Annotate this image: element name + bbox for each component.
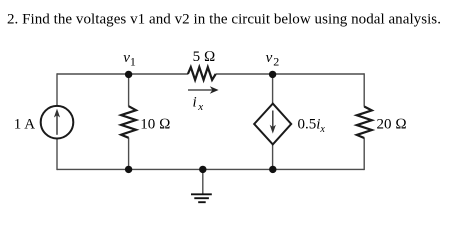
current arrow ix (points right, under 5-ohm resistor) xyxy=(188,86,219,93)
node v2 junction dot xyxy=(269,71,276,78)
node label v1 xyxy=(123,50,136,68)
svg-text:10 Ω: 10 Ω xyxy=(140,116,170,132)
ground symbol xyxy=(191,194,212,202)
svg-text:v: v xyxy=(266,50,273,66)
svg-text:x: x xyxy=(197,101,203,113)
junction dot: bottom rail below 10-ohm resistor xyxy=(125,166,132,173)
dependent current source 0.5ix (diamond) xyxy=(254,104,291,145)
resistor R 20 ohm xyxy=(357,107,372,139)
resistor R 5 ohm xyxy=(188,67,216,80)
wire: top segment from top-left corner to 5-ohm resistor (through node v1) xyxy=(57,73,188,75)
wire: top segment from 5-ohm resistor to top-right corner (through node v2) xyxy=(216,73,365,75)
wire: bottom rail from bottom-left to bottom-right corner xyxy=(57,168,364,170)
wire: node v2 down to dependent source xyxy=(272,74,274,104)
junction dot: bottom rail below dependent source xyxy=(269,166,276,173)
wire: right lower (20-ohm resistor down to bottom-right corner) xyxy=(363,138,365,170)
svg-text:1 A: 1 A xyxy=(14,116,35,132)
svg-text:0.5ix: 0.5ix xyxy=(298,116,326,135)
wire: ground stub xyxy=(202,169,204,193)
wire: left lower (current source down to bottom-left corner) xyxy=(56,139,58,170)
junction dot: bottom rail at ground stub xyxy=(199,166,206,173)
svg-text:2: 2 xyxy=(273,54,279,68)
svg-text:1: 1 xyxy=(130,54,136,68)
svg-text:i: i xyxy=(193,95,197,111)
wire: left upper (top-left corner down to current source) xyxy=(56,73,58,106)
current source I1 (1 A, independent) xyxy=(41,106,74,139)
wire: right upper (top-right corner down to 20-ohm resistor) xyxy=(363,73,365,106)
svg-text:20 Ω: 20 Ω xyxy=(377,116,407,132)
wire: node v1 down to 10-ohm resistor xyxy=(128,74,130,106)
svg-text:2. Find the voltages v1 and v2: 2. Find the voltages v1 and v2 in the ci… xyxy=(7,12,441,28)
current label ix xyxy=(193,95,204,114)
wire: 10-ohm resistor down to bottom rail xyxy=(128,138,130,170)
svg-text:5 Ω: 5 Ω xyxy=(193,49,216,65)
node label v2 xyxy=(266,50,280,68)
resistor R 10 ohm xyxy=(121,106,136,138)
node v1 junction dot xyxy=(125,71,132,78)
wire: dependent source down to bottom rail xyxy=(272,144,274,169)
